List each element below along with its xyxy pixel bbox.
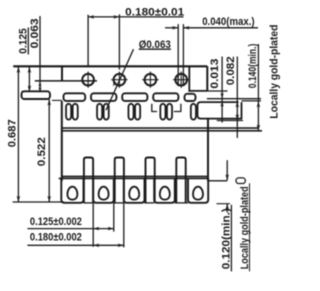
body right edge xyxy=(207,118,209,181)
pad hole 5 xyxy=(193,187,203,200)
svg-text:0.082: 0.082 xyxy=(225,56,237,85)
carrier rail lip bar 5 xyxy=(153,93,178,101)
carrier strip left end edge xyxy=(61,66,63,81)
svg-text:0.040(max.): 0.040(max.) xyxy=(202,16,255,28)
pilot hole centerline xyxy=(35,80,97,82)
dimension 0.125±0.002 line xyxy=(27,227,114,231)
rear contact post 2 xyxy=(115,158,124,203)
dimension 0.082 line xyxy=(236,57,240,139)
carrier rail lip bar 6 xyxy=(185,94,196,101)
pilot hole 2 xyxy=(111,72,127,88)
extension lines 0.040 xyxy=(178,24,183,86)
carrier strip top edge xyxy=(13,65,207,67)
contact pin pair 4 xyxy=(160,104,172,120)
extension line pad 2 left edge xyxy=(92,203,94,247)
strip right end tab bottom edge xyxy=(189,90,207,92)
extension line hole 2 center xyxy=(118,14,120,69)
plated contact pad 4 xyxy=(154,178,175,202)
plated contact pad 5 xyxy=(188,178,208,202)
body bottom edge lower line xyxy=(59,177,208,179)
pad gap closure lines xyxy=(84,202,189,204)
contact pin pair 1 xyxy=(66,104,78,120)
dimension Ø0.063 underline xyxy=(139,48,171,50)
dimension 0.125 left underline xyxy=(27,28,29,55)
pad 5 bottom extension line xyxy=(217,203,231,205)
contact pin pair 3 xyxy=(128,104,140,120)
body bottom right extension and end tab xyxy=(208,178,245,184)
pad hole 1 xyxy=(67,187,77,200)
contact pin pair 2 xyxy=(97,104,109,120)
dimension 0.687 line xyxy=(17,67,21,202)
dimension 0.013 line xyxy=(220,57,223,123)
pilot hole 1 xyxy=(82,72,94,88)
pad hole 4 xyxy=(160,187,170,200)
plated contact pad 1 xyxy=(61,178,83,202)
body left edge xyxy=(61,101,63,181)
extension line pad 2 right edge xyxy=(113,203,115,232)
carrier rail lip bar 2 xyxy=(64,93,86,101)
right end flat blade xyxy=(198,102,242,119)
dimension 0.120(min.) underline xyxy=(230,205,232,272)
pilot hole 3 xyxy=(142,72,158,88)
svg-text:0.140(min.): 0.140(min.) xyxy=(247,43,259,88)
right extension line strip bottom xyxy=(207,90,227,92)
body top edge lower line xyxy=(62,130,262,132)
right extension pin bottom xyxy=(217,120,243,122)
svg-text:0.180±0.002: 0.180±0.002 xyxy=(30,231,82,243)
dimension 0.125 left arrow line xyxy=(28,67,32,92)
carrier rail lip bar 1 (left) xyxy=(22,91,51,99)
rear contact post 4 xyxy=(176,158,185,203)
strip right end tab right edge xyxy=(206,66,208,91)
body top edge upper line xyxy=(62,127,258,129)
right extension sheet edge upper xyxy=(207,98,261,100)
rear contact post 3 xyxy=(146,158,155,203)
dimension 0.040(max.) arrows xyxy=(165,26,258,30)
plated contact pad 3 xyxy=(124,178,145,202)
dimension 0.180±0.01 line xyxy=(88,15,183,19)
dimension 0.180±0.002 line xyxy=(27,244,124,248)
body bottom edge upper line xyxy=(62,175,208,177)
label Locally gold-plated bottom underline xyxy=(249,183,251,271)
strip right end tab left edge xyxy=(188,66,190,92)
extension line pad 3 left edge xyxy=(123,203,125,247)
extension line hole 1 center xyxy=(87,15,89,66)
carrier rail lip bar 3 xyxy=(91,93,116,101)
pad hole 2 xyxy=(99,187,109,200)
svg-text:0.522: 0.522 xyxy=(36,137,48,166)
right extension sheet edge lower xyxy=(242,100,262,102)
pilot hole 4 xyxy=(173,72,189,88)
contact pin pair 5 xyxy=(191,104,196,120)
pad hole 3 xyxy=(129,187,139,200)
plated contact pad 2 xyxy=(93,178,114,202)
dimension 0.063 left line xyxy=(38,16,41,92)
svg-text:0.013: 0.013 xyxy=(209,59,221,89)
svg-text:0.687: 0.687 xyxy=(6,119,18,147)
leader line to pilot hole 2 xyxy=(106,49,134,110)
dimension 0.120(min.) arrows xyxy=(225,160,229,212)
dimension 0.522 line xyxy=(47,99,51,202)
carrier rail lip bar 4 xyxy=(122,93,147,101)
svg-text:0.063: 0.063 xyxy=(29,18,41,48)
svg-text:0.125±0.002: 0.125±0.002 xyxy=(30,216,82,228)
pin pair 4 shoulder brackets xyxy=(152,104,181,112)
dimension 0.140(min.) line xyxy=(257,44,261,131)
svg-text:Locally gold-plated: Locally gold-plated xyxy=(269,25,281,119)
pad bottom extension line left xyxy=(13,201,64,203)
lip bar 2 lower curl line xyxy=(52,99,62,101)
rear contact post 1 xyxy=(84,158,93,203)
svg-text:0.125: 0.125 xyxy=(17,28,29,54)
